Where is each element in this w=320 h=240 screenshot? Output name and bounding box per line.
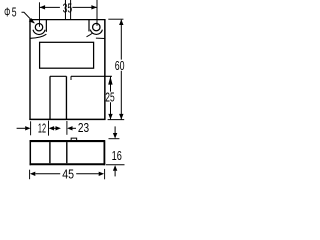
svg-text:12: 12 (38, 121, 46, 135)
svg-text:25: 25 (105, 90, 114, 104)
svg-text:60: 60 (115, 59, 125, 73)
svg-text:23: 23 (78, 121, 89, 135)
svg-text:5: 5 (12, 5, 17, 19)
svg-text:16: 16 (112, 149, 122, 163)
svg-text:45: 45 (62, 167, 74, 181)
svg-text:Φ: Φ (4, 6, 10, 20)
svg-text:35: 35 (63, 2, 73, 16)
